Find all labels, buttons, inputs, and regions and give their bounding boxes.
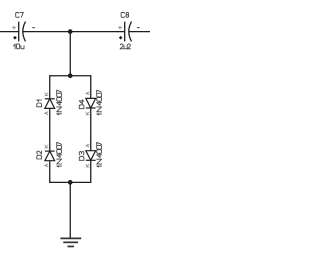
label D2	[37, 151, 42, 159]
plus pin marker C7 (bold)	[13, 36, 16, 39]
wire C7 to C8	[23, 31, 125, 33]
pin K (D2)	[45, 145, 48, 148]
capacitor C8	[125, 22, 132, 42]
minus marker C7	[32, 27, 35, 29]
label D4	[79, 100, 84, 109]
wire left edge to C7 plus plate	[0, 31, 19, 33]
wire right branch middle	[90, 108, 92, 151]
pin A (D3)	[86, 144, 89, 147]
wire to ground	[69, 182, 71, 238]
pin K (D1)	[45, 93, 48, 96]
label C8	[121, 12, 129, 17]
bridge bottom rail	[50, 181, 91, 183]
value 1N4007 (D2)	[57, 142, 62, 167]
wire right branch lower	[90, 160, 92, 183]
value 10u	[14, 44, 24, 49]
label C7	[16, 12, 24, 17]
wire C8 to right edge	[129, 31, 150, 33]
wire left branch lower	[49, 161, 51, 183]
value 1N4007 (D3)	[97, 142, 102, 167]
junction bridge bottom	[68, 180, 73, 185]
diode D3	[86, 151, 96, 161]
value 1N4007 (D4)	[97, 90, 102, 115]
wire top junction down to bridge	[69, 32, 71, 76]
pin A (D2)	[45, 164, 48, 167]
wire right branch upper	[90, 75, 92, 98]
pin A (D4)	[86, 92, 89, 95]
value 2u2	[120, 44, 130, 49]
pin K (D3)	[86, 164, 89, 167]
diode D2	[45, 151, 55, 161]
label D1	[37, 100, 42, 107]
pin A (D1)	[45, 112, 48, 115]
junction top wire	[68, 29, 73, 34]
junction bridge top	[68, 73, 73, 78]
diode D4	[86, 98, 96, 108]
value 1N4007 (D1)	[57, 90, 62, 115]
pin K (D4)	[86, 112, 89, 115]
diode D1	[45, 99, 55, 109]
plus marker C8	[118, 26, 122, 30]
plus marker C7	[12, 26, 16, 30]
label D3	[79, 152, 84, 161]
capacitor C7	[19, 22, 26, 42]
minus marker C8	[137, 27, 140, 29]
bridge top rail	[50, 75, 91, 77]
plus pin marker C8 (bold)	[119, 36, 122, 39]
ground	[60, 238, 81, 246]
wire left branch middle	[49, 108, 51, 151]
wire left branch upper	[49, 75, 51, 99]
